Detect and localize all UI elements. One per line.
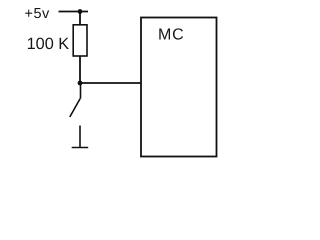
svg-text:100 K: 100 K — [27, 35, 70, 53]
wire top horizontal from +5v — [59, 11, 89, 13]
svg-text:MC: MC — [158, 26, 184, 43]
svg-text:+5v: +5v — [25, 6, 51, 22]
wire vertical to resistor top — [79, 12, 81, 26]
wire vertical from resistor bottom — [79, 56, 81, 84]
ground bar — [72, 147, 89, 149]
node junction bottom — [78, 81, 83, 86]
switch S1 stub — [80, 83, 82, 99]
IC U1 MC box — [141, 18, 217, 157]
wire horizontal to MC — [80, 82, 142, 84]
ground stub wire — [79, 126, 81, 148]
switch S1 blade — [70, 99, 80, 118]
resistor 100K body — [73, 25, 87, 56]
node junction top — [78, 9, 83, 14]
